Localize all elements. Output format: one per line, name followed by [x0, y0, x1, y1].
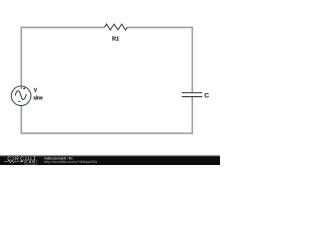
capacitor C bottom plate [182, 96, 203, 98]
plus sign [23, 87, 26, 90]
resistor R1 [105, 24, 128, 30]
svg-text:LAB: LAB [25, 160, 36, 164]
svg-text:R1: R1 [112, 36, 119, 42]
wire right upper [191, 27, 193, 93]
svg-text:http://circuitlab.com/c7466qwe: http://circuitlab.com/c7466qwe32a [44, 160, 97, 164]
voltage source V1 circle [11, 86, 31, 106]
wire bottom [21, 132, 194, 134]
logo resistor squiggle [4, 160, 19, 162]
minus sign [18, 100, 21, 102]
capacitor C top plate [182, 92, 203, 94]
wire left upper [20, 27, 22, 87]
wire left lower [20, 105, 22, 133]
logo arrow [21, 160, 24, 162]
source sine wave [15, 91, 26, 100]
svg-text:C: C [204, 93, 209, 100]
source top terminal stub [20, 86, 22, 89]
svg-text:sine: sine [33, 95, 43, 101]
watermark band [0, 157, 220, 165]
watermark band top transition row [0, 155, 220, 156]
wire right lower [191, 97, 193, 134]
logo LAB box [24, 160, 37, 164]
wire top-right segment [127, 26, 192, 28]
wire top-left segment [21, 26, 104, 28]
